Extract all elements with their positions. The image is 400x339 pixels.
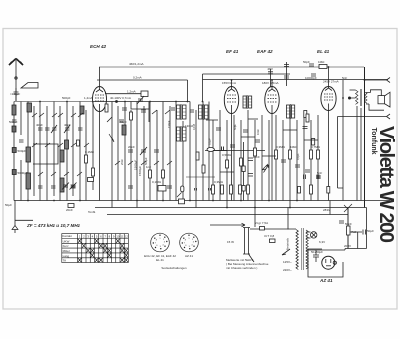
cap 50nF [339,221,344,223]
svg-text:40pF: 40pF [36,123,43,127]
capacitor C18 [295,165,300,167]
resistor box horizontal [88,178,94,182]
screen feed wire [203,73,291,75]
svg-text:5nF: 5nF [317,171,322,175]
svg-text:EAF 42: EAF 42 [257,49,273,54]
output transformer primary [356,90,359,104]
tube EAF42 [265,87,279,114]
tube ECH42 cathode wire [99,112,101,201]
capacitor blob C1d [12,170,16,175]
wire [79,102,81,201]
mains switch [344,204,352,212]
svg-text:1500µF: 1500µF [134,160,138,170]
capacitor blob C1b [12,126,16,132]
junction node [333,261,336,264]
svg-text:EL 41: EL 41 [156,258,164,262]
ground stub wire [15,219,33,221]
svg-text:50µF: 50µF [367,229,374,233]
wire [233,115,235,201]
AF coupling vertical wire [243,142,245,201]
capacitor C25 [255,140,260,142]
wire [268,95,277,102]
wire [27,102,29,201]
junction dots right band [187,66,366,208]
resistor R17 [226,160,229,168]
svg-text:TA: TA [63,259,67,263]
wire [268,120,270,201]
svg-text:1,4mA: 1,4mA [84,96,93,100]
svg-text:mit Chassis verbinden ): mit Chassis verbinden ) [226,266,257,270]
tube envelope [93,87,107,112]
switch position table [62,234,129,263]
capacitor C26 [281,160,286,162]
secondary return wires [357,106,361,201]
wire [228,89,235,92]
svg-text:Kontakt: Kontakt [62,234,72,238]
component body [287,105,290,118]
svg-text:50pF: 50pF [303,60,310,64]
resistor R22 [306,114,309,122]
coupling pill Z2 [181,186,184,192]
junction node [151,233,170,252]
resistor 50k [242,186,245,192]
component body [177,105,181,119]
svg-text:500pF: 500pF [9,120,18,124]
grid resistor 1M EL41 [304,111,307,118]
wire [117,106,119,201]
wire [82,244,86,248]
smoothing electrolytic [313,250,319,262]
capacitor C19 [316,176,321,178]
wire [108,248,112,252]
svg-text:0,1MΩ: 0,1MΩ [152,180,162,184]
grid stopper wire [92,101,95,103]
trimmer C6 [51,125,57,133]
table header digits [62,234,128,238]
resistor R15 [254,148,257,156]
wire [124,102,126,201]
tube EAF42 anode wire [271,80,273,87]
capacitor C3 [19,140,24,142]
wire [96,90,103,93]
wire [249,99,252,105]
capacitor C9 [38,186,43,188]
trimmer C13 [140,147,147,155]
svg-text:500pF: 500pF [18,149,27,153]
grid resistor box [141,91,148,97]
svg-text:6,3V: 6,3V [319,240,325,244]
wire [120,248,124,252]
wire [175,102,177,201]
IF transformer T1 secondary [199,104,209,120]
wire [136,102,138,208]
wire [326,259,331,263]
svg-text:ECH 42: ECH 42 [90,44,107,49]
junction node [180,233,199,252]
wire 283V [347,208,349,249]
capacitor C15 [167,186,172,188]
svg-text:0,5MΩ: 0,5MΩ [222,153,232,157]
capacitor 6000pF bottom [317,175,319,180]
capacitor C15e [119,120,124,122]
capacitor C4 [38,128,43,130]
wire [9,62,23,66]
pilot lamp [311,232,317,238]
component body [205,105,209,119]
svg-text:130pF: 130pF [167,120,171,128]
junction node [328,66,330,68]
svg-text:28V: 28V [268,67,273,71]
wire [92,102,94,191]
wire [247,110,249,201]
wire [205,109,209,116]
AVC line wires lower [329,201,331,215]
main grid bus wire [14,101,93,103]
capacitor C21c [284,76,289,78]
switch contacts row4 [115,161,172,165]
svg-text:1nF: 1nF [146,165,151,169]
HT wire to rectifier [306,249,345,251]
resistor R4b [130,112,133,120]
svg-text:3×T 0,8: 3×T 0,8 [264,234,275,238]
wires to speaker [350,90,385,110]
svg-text:5000pF: 5000pF [18,171,28,175]
capacitor C15c [141,110,146,112]
svg-text:ZF = 473 kHz u 10,7 MHz: ZF = 473 kHz u 10,7 MHz [26,223,81,228]
phono line [210,223,245,227]
capacitor C2 [12,120,17,122]
svg-text:50µF: 50µF [5,203,12,207]
IF trafo tuning capacitor Ca [171,108,175,110]
svg-text:500pF: 500pF [62,96,71,100]
suppressor cap 5nF [270,239,276,243]
junction dot [348,97,350,99]
tube EAF42 cathode wire [271,114,273,201]
coil L2c [65,140,69,149]
junction node [136,200,138,202]
wire [149,102,151,201]
coil L2 [26,147,31,162]
HT bus wire top2 [97,80,188,102]
svg-text:1MΩ: 1MΩ [290,145,297,149]
transformer primary winding [296,230,298,270]
wire [99,244,103,248]
component body [199,105,203,119]
wire [33,106,35,196]
right section vertical wires [208,102,210,201]
svg-text:460/1,2mA: 460/1,2mA [129,62,144,66]
capacitor C11 [71,186,76,188]
svg-text:0,2mA: 0,2mA [133,76,142,80]
wire [202,102,204,201]
resistor R13 [310,150,313,159]
reservoir electrolytic 50uF [350,230,366,249]
wire [240,120,242,201]
IF transformer T1 primary [177,104,187,120]
wire [183,131,187,138]
resistor R11 [289,150,292,159]
svg-text:500µF: 500µF [144,157,148,165]
svg-text:50pF: 50pF [233,124,237,130]
svg-text:0,1µF: 0,1µF [296,153,300,160]
svg-text:155V/3mA: 155V/3mA [222,81,236,85]
wire [103,244,107,248]
speaker [378,96,384,104]
capacitor on AF line [222,147,224,151]
wire [66,102,68,201]
AVC wire [186,176,215,178]
svg-text:40-100V 0,7mA: 40-100V 0,7mA [110,96,131,100]
resistor R2 [92,168,95,176]
mains switch [249,254,255,262]
svg-text:20nF: 20nF [128,145,135,149]
coil L2d [80,106,84,114]
svg-text:2×gr 7,5A: 2×gr 7,5A [255,221,268,225]
wire [212,120,214,201]
capacitor C23 [216,128,221,130]
wire [202,74,204,102]
wire [195,110,197,208]
junction dots row [27,101,191,202]
svg-text:283V: 283V [323,208,330,212]
svg-text:10nF: 10nF [256,129,260,135]
capacitor 50nF bottom [304,175,306,180]
padder C12 [128,150,133,152]
wire [95,258,99,262]
tube EL41 [321,87,336,111]
svg-text:Tonbl.: Tonbl. [88,210,96,214]
antenna coupling trapezoid [21,83,38,89]
fuse box [260,227,265,231]
svg-text:1,2mA: 1,2mA [127,90,136,94]
wire [180,126,183,142]
svg-text:203V: 203V [344,244,351,248]
component body [249,96,252,108]
tube ECH42 [93,87,107,112]
wire [59,106,61,201]
tube ECH42 anode wire [99,67,101,87]
wire [93,101,191,103]
wire [303,115,305,201]
wire [20,102,22,201]
capacitor C15b [128,186,133,188]
wire [328,87,330,111]
feedback tap wire [338,117,344,189]
volume potentiometer P1 [109,134,114,142]
coil L2b [27,103,32,112]
svg-text:180V 4,5mA: 180V 4,5mA [262,81,279,85]
svg-text:0,7MΩ: 0,7MΩ [311,145,321,149]
resistor box [312,139,315,146]
tube AZ41 [322,256,335,269]
middle IF section vertical wires [111,102,113,208]
wire [72,106,74,196]
wire [202,104,205,120]
svg-text:EL 41: EL 41 [317,49,330,54]
phono arrow top [365,78,391,83]
svg-text:50pF: 50pF [120,120,127,124]
phono arrow bottom [338,114,391,119]
screen components above EL41: capacitor C20 [309,64,314,66]
wire [289,110,291,208]
wire [15,60,17,101]
wire [91,253,95,257]
svg-text:20nF: 20nF [120,159,124,165]
capacitor pair CP2 [209,188,211,191]
wire [53,102,55,197]
left tuning section vertical wires [13,102,15,201]
AVC feed wire [286,62,288,86]
bus coupling box [179,199,185,204]
resistor R7 [230,185,233,194]
switch contact S5 [152,110,170,114]
wire [292,108,295,114]
AF line wire [205,150,265,152]
capacitor C17 [248,174,253,177]
wire [296,120,298,201]
vertical label smudges right band [208,124,301,160]
component body [243,96,246,108]
feedback wire [342,80,344,201]
wire [289,104,292,119]
capacitor C21 [311,74,316,76]
trimmer C7 [64,125,70,133]
wire [162,102,164,201]
IF trafo tuning capacitor Cb [190,110,194,112]
resistor R8 [239,185,242,194]
svg-text:15 W: 15 W [227,240,234,244]
capacitor 50pF [303,127,308,129]
heater wires to pilot lamp [306,232,311,238]
capacitor C10 [51,186,56,188]
wire [189,102,191,201]
resistor R1 [85,155,88,163]
tone switch arrow [262,164,268,170]
coil L1 [12,105,16,115]
svg-text:AZ 41: AZ 41 [185,254,193,258]
wire [226,120,228,208]
svg-text:11: 11 [121,234,124,238]
resistor 70k [242,166,245,172]
junction node [15,77,17,79]
wire [219,110,221,201]
wire [317,115,319,201]
IF transformer T4 [287,104,295,119]
svg-text:Netztrafo: Netztrafo [286,238,290,251]
wire transformer primary feed [255,208,288,230]
staircase wire [131,102,149,123]
svg-text:1500µF: 1500µF [138,166,142,176]
wire [177,131,181,138]
wire [324,94,333,100]
resistor R16 [240,158,243,166]
svg-text:245V 27mA: 245V 27mA [323,80,339,84]
junction node [226,207,228,209]
wire [310,120,312,201]
tone capacitor box [68,204,74,208]
volume potentiometer body [207,148,214,152]
screen cap on EAF42 [268,72,273,74]
grid feed wire [105,93,141,95]
coil L5 [60,178,64,192]
HT bus wire top2 right [203,79,389,81]
oscillator coil L6 [122,125,126,135]
tube EF41 [224,87,238,114]
svg-text:0,1MΩ: 0,1MΩ [85,150,95,154]
coupling box Z1 [158,186,166,192]
output transformer core [360,89,361,106]
wire [347,208,349,215]
svg-text:10: 10 [116,234,120,238]
svg-text:10nF: 10nF [253,155,260,159]
capacitor C24 [230,145,235,147]
wire [271,87,273,114]
return bus wire 3 [107,214,348,216]
ground symbol [14,201,16,234]
svg-text:20nF: 20nF [66,208,73,212]
ground bus wire [14,200,390,202]
component body [183,105,187,119]
capacitor C5 [45,128,50,130]
resistor R18 [317,150,320,159]
diode load capacitor C22 [243,130,248,132]
wire [120,244,124,248]
resistor R4d [196,152,199,160]
capacitor blob C1c [12,148,16,153]
wire HT out [345,208,367,249]
wire [108,253,112,257]
resistor R6 [221,185,224,194]
tube EL41 anode wire [328,67,330,87]
svg-text:1MΩ: 1MΩ [318,60,325,64]
svg-text:50nF: 50nF [345,222,352,226]
wire [12,226,18,230]
wire [180,104,183,120]
svg-text:Sockelschaltungen: Sockelschaltungen [161,266,187,270]
svg-text:0,3MΩ: 0,3MΩ [214,180,224,184]
wire [95,95,104,101]
wire [78,234,125,263]
rectifier loop wires [308,249,343,277]
tiny value labels [5,60,374,272]
EAF42 grid top wire [270,69,272,87]
wire to transformer [250,228,296,230]
svg-text:UKW: UKW [63,239,70,243]
svg-text:EF 41: EF 41 [226,49,239,54]
switch contacts row1 [32,113,83,117]
svg-text:≈100pF: ≈100pF [10,92,20,96]
wire [326,265,331,267]
capacitor C8 [78,128,83,130]
transformer secondary winding [306,230,308,269]
wire [78,258,82,262]
resistor R4e [202,165,205,173]
transformer core [302,228,304,270]
junction node [27,200,29,202]
svg-text:Lang: Lang [63,254,70,258]
tube labels [90,44,333,283]
coil L3 [26,173,31,189]
tube EF41 cathode wire [231,114,233,201]
capacitor C15d [122,108,127,110]
table X marks [78,239,128,262]
wire [46,106,48,201]
wire [261,115,263,201]
wire [282,120,284,201]
HT bus wire top1 [99,66,364,68]
wire [85,110,87,201]
svg-text:Mittel: Mittel [63,249,70,253]
